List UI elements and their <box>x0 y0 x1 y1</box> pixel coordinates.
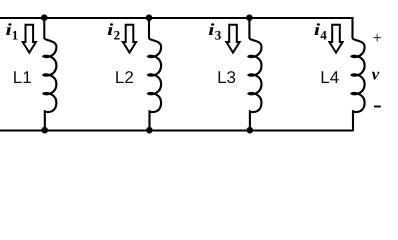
node: top junction of L3 <box>246 14 253 21</box>
node: bottom junction of L1 <box>41 127 48 134</box>
svg-text:2: 2 <box>114 28 121 43</box>
svg-text:L2: L2 <box>115 68 134 87</box>
node: top junction of L1 <box>41 14 48 21</box>
node: bottom junction of L3 <box>247 127 254 134</box>
node: top junction of L2 <box>146 14 153 21</box>
label minus sign of v <box>374 106 381 108</box>
svg-text:L1: L1 <box>13 68 32 87</box>
current arrow i1 <box>23 25 36 53</box>
current arrow i2 <box>123 25 136 53</box>
svg-text:+: + <box>373 30 382 47</box>
inductor L4 <box>352 18 365 132</box>
svg-text:L3: L3 <box>217 68 236 87</box>
current arrow i3 <box>226 25 239 53</box>
node: bottom junction of L2 <box>146 127 153 134</box>
top wire <box>0 17 354 19</box>
svg-text:4: 4 <box>320 28 327 43</box>
bottom wire <box>0 130 354 132</box>
inductor L1 <box>43 18 56 132</box>
svg-text:v: v <box>372 64 380 83</box>
svg-text:1: 1 <box>12 28 18 43</box>
svg-text:L4: L4 <box>320 68 339 87</box>
inductor L3 <box>249 18 262 132</box>
svg-text:3: 3 <box>215 28 222 43</box>
inductor L2 <box>148 18 161 132</box>
current arrow i4 <box>329 25 342 53</box>
